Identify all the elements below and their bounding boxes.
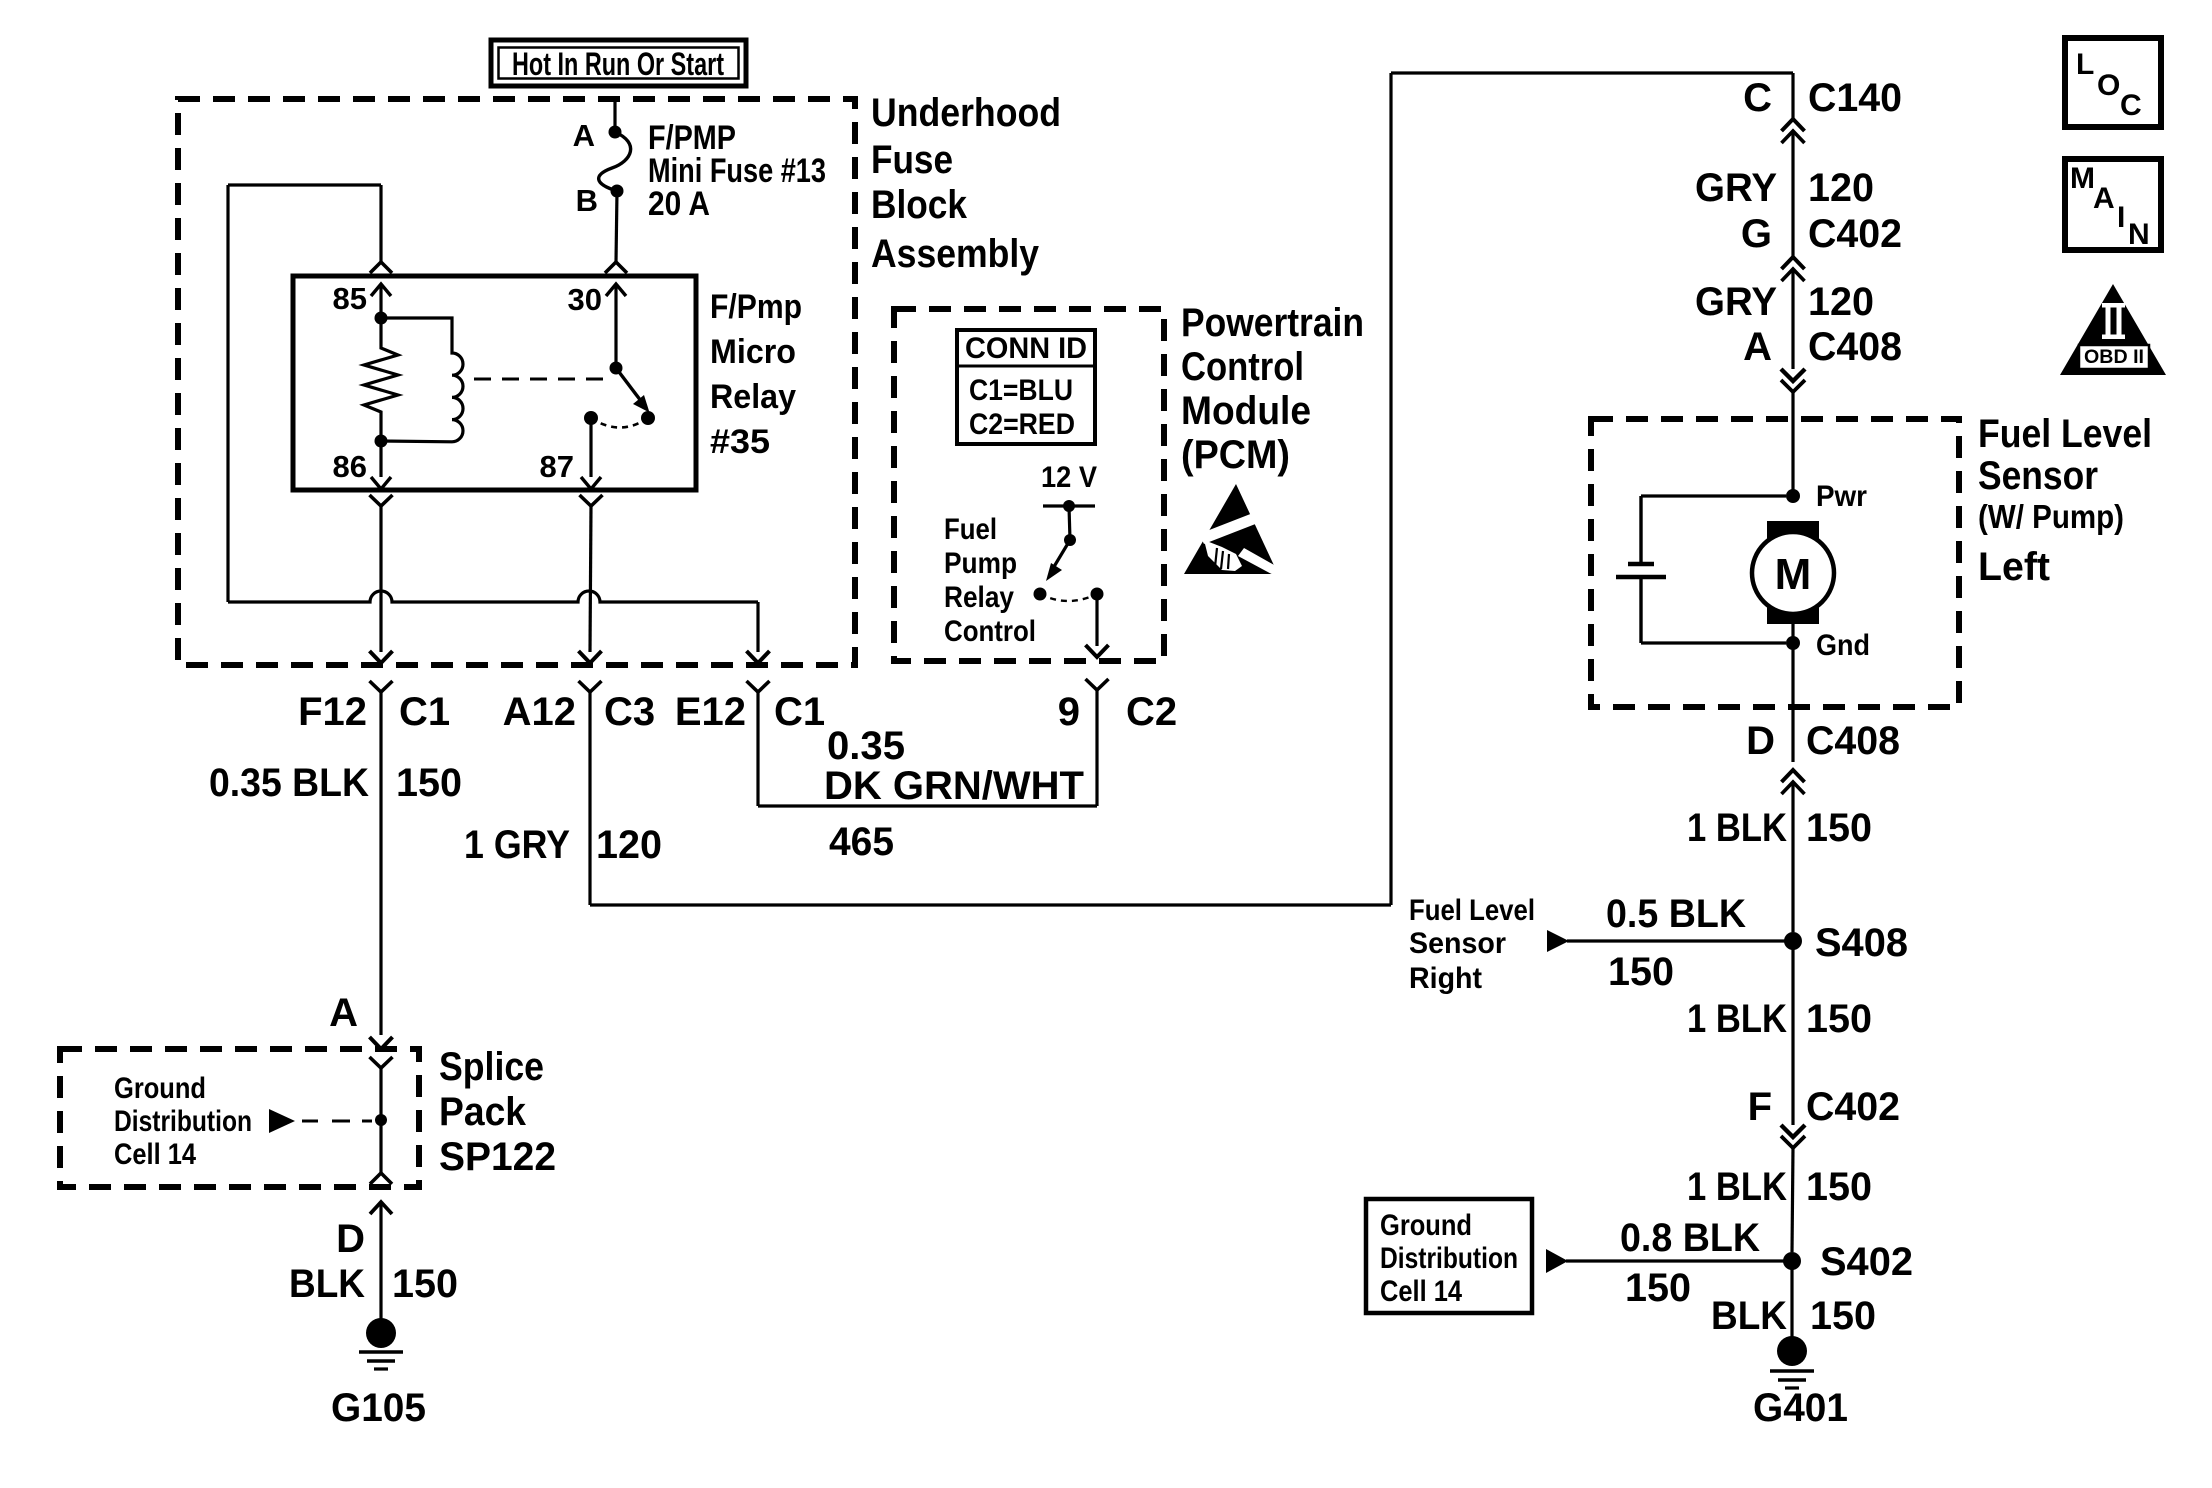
- svg-text:#35: #35: [710, 423, 770, 461]
- PCM switch pivot node: [1064, 534, 1076, 546]
- svg-text:L: L: [2076, 48, 2094, 81]
- svg-text:G105: G105: [331, 1386, 426, 1430]
- label 0.8 BLK 150: [1620, 1216, 1760, 1310]
- svg-text:A: A: [1743, 325, 1772, 369]
- svg-text:C2=RED: C2=RED: [969, 408, 1075, 441]
- svg-text:150: 150: [1806, 1165, 1872, 1209]
- PCM output wire to pin 9: [1095, 594, 1098, 646]
- svg-text:Fuel Level: Fuel Level: [1978, 412, 2152, 456]
- exit arrow pin 9 at PCM border: [1086, 645, 1109, 657]
- svg-text:(PCM): (PCM): [1181, 433, 1290, 477]
- connector A12/C3: [503, 681, 656, 734]
- fuel pump motor M: [1752, 521, 1834, 624]
- svg-text:Fuel Level: Fuel Level: [1409, 894, 1535, 927]
- connector 9/C2: [1058, 679, 1177, 734]
- svg-text:Control: Control: [1181, 345, 1304, 389]
- ground distribution cell 14 box: [1366, 1199, 1532, 1313]
- svg-text:F/Pmp: F/Pmp: [710, 288, 802, 326]
- label Fuel Pump Relay Control: [944, 513, 1036, 648]
- svg-text:BLK: BLK: [1711, 1294, 1787, 1338]
- svg-text:150: 150: [1625, 1266, 1691, 1310]
- PCM switch upper link: [1069, 506, 1070, 540]
- exit arrow below splice pack: [370, 1202, 392, 1338]
- svg-text:BLK: BLK: [289, 1262, 365, 1306]
- svg-text:Assembly: Assembly: [871, 232, 1040, 276]
- svg-text:Distribution: Distribution: [114, 1105, 252, 1138]
- label G105: [331, 1386, 426, 1430]
- svg-text:D: D: [1746, 719, 1775, 763]
- svg-text:Sensor: Sensor: [1409, 927, 1506, 960]
- wire pin 85 external loop to E12: [228, 185, 758, 652]
- fuse F/PMP Mini Fuse #13 20A element: [599, 132, 631, 191]
- ground distribution callout arrow: [1546, 1249, 1568, 1273]
- relay actuation dashed link: [474, 378, 610, 381]
- svg-text:(W/ Pump): (W/ Pump): [1978, 498, 2124, 535]
- wire A12 (GRY 120) to connector C140: [590, 73, 1793, 905]
- svg-text:Hot In Run Or Start: Hot In Run Or Start: [512, 46, 724, 82]
- relay pin 85 arrow: [371, 284, 391, 318]
- relay F/Pmp Micro Relay #35 box: [293, 276, 696, 490]
- svg-text:Gnd: Gnd: [1816, 629, 1870, 662]
- label A: [329, 991, 358, 1035]
- wire Gnd out of sensor box: [1791, 643, 1794, 762]
- connector F12/C1: [298, 681, 450, 734]
- svg-text:M: M: [1775, 550, 1812, 599]
- connector F/C402: [1748, 1085, 1900, 1148]
- wire C408 to S408: [1791, 782, 1794, 932]
- label 30: [568, 282, 602, 317]
- svg-text:Block: Block: [871, 183, 968, 227]
- svg-text:I: I: [2117, 201, 2125, 234]
- relay pin 87 arrow: [581, 418, 601, 489]
- relay switch pivot node: [610, 362, 623, 375]
- label Splice Pack SP122: [439, 1045, 556, 1179]
- svg-text:Cell 14: Cell 14: [1380, 1275, 1462, 1308]
- svg-text:C1=BLU: C1=BLU: [969, 374, 1073, 407]
- svg-text:GRY: GRY: [1695, 280, 1777, 324]
- node Gnd: [1786, 629, 1870, 662]
- svg-text:Pump: Pump: [944, 547, 1017, 580]
- connector C/C140: [1743, 76, 1902, 143]
- connector A/C408: [1743, 325, 1902, 392]
- connector below relay pin 86: [370, 495, 393, 652]
- svg-text:C402: C402: [1808, 212, 1902, 256]
- svg-text:85: 85: [333, 281, 367, 316]
- splice pack SP122 dashed box: [60, 1049, 419, 1187]
- svg-text:150: 150: [396, 761, 462, 805]
- relay coil top node: [375, 312, 388, 325]
- svg-text:120: 120: [596, 823, 662, 867]
- svg-text:Fuel: Fuel: [944, 513, 997, 546]
- fuel level sensor dashed box: [1591, 419, 1959, 707]
- label 1 BLK 150 (lower): [1687, 1165, 1872, 1209]
- wire S408 to C402: [1791, 941, 1794, 1125]
- OBD II triangle symbol: [2060, 284, 2166, 375]
- svg-text:DK GRN/WHT: DK GRN/WHT: [824, 764, 1084, 808]
- relay switch dashed throw arc: [591, 418, 648, 428]
- svg-text:9: 9: [1058, 690, 1080, 734]
- svg-text:C1: C1: [399, 690, 450, 734]
- connector below relay pin 87: [580, 495, 603, 652]
- underhood fuse block assembly dashed box: [178, 99, 855, 665]
- connector G/C402: [1741, 212, 1902, 281]
- label GRY 120 (upper): [1695, 166, 1874, 210]
- svg-text:20 A: 20 A: [648, 185, 710, 223]
- svg-text:Ground: Ground: [114, 1072, 206, 1105]
- svg-text:0.35 BLK: 0.35 BLK: [209, 761, 369, 805]
- svg-text:150: 150: [1608, 950, 1674, 994]
- svg-text:O: O: [2097, 69, 2120, 102]
- svg-text:Pack: Pack: [439, 1090, 527, 1134]
- fuel level sensor right callout arrow: [1547, 930, 1569, 952]
- svg-text:A12: A12: [503, 690, 576, 734]
- svg-text:Splice: Splice: [439, 1045, 544, 1089]
- ground G105 symbol: [359, 1318, 403, 1369]
- ESD sensitive device symbol: [1184, 484, 1283, 578]
- svg-text:0.35: 0.35: [827, 724, 905, 768]
- relay switch moving contact: [641, 411, 655, 425]
- svg-text:Left: Left: [1978, 545, 2050, 589]
- relay coil winding: [381, 318, 463, 442]
- svg-text:C: C: [1743, 76, 1772, 120]
- node Pwr: [1786, 480, 1867, 513]
- svg-text:C: C: [2120, 89, 2142, 122]
- svg-text:Relay: Relay: [710, 378, 796, 416]
- svg-text:M: M: [2070, 162, 2095, 195]
- label GRY 120 (lower): [1695, 280, 1874, 324]
- relay fixed contact 87: [584, 411, 598, 425]
- label 1 BLK 150 (upper): [1687, 806, 1872, 850]
- connector D/C408: [1746, 719, 1900, 794]
- label 86: [333, 449, 367, 484]
- svg-text:S408: S408: [1815, 921, 1908, 965]
- wire C402 to S402: [1792, 1148, 1793, 1252]
- label 1 BLK 150 (middle): [1687, 997, 1872, 1041]
- svg-text:F: F: [1748, 1085, 1772, 1129]
- ground G401 symbol: [1770, 1336, 1814, 1388]
- splice connector chevron top: [370, 1057, 393, 1173]
- label Powertrain Control Module (PCM): [1181, 301, 1364, 477]
- label A: [573, 118, 595, 153]
- label F/PMP Mini Fuse #13 20 A: [648, 119, 826, 223]
- svg-text:C1: C1: [774, 690, 825, 734]
- node A: [609, 126, 622, 139]
- svg-text:30: 30: [568, 282, 602, 317]
- splice node SP122: [375, 1114, 387, 1126]
- svg-text:B: B: [576, 183, 598, 218]
- wire 0.8 BLK 150 into S402: [1566, 1259, 1784, 1262]
- ground distribution callout arrow (splice): [269, 1109, 372, 1133]
- svg-text:Relay: Relay: [944, 581, 1014, 614]
- label 1 GRY 120: [464, 823, 662, 867]
- entry arrow at splice pack border: [370, 1037, 393, 1049]
- svg-text:150: 150: [1806, 806, 1872, 850]
- svg-text:Fuse: Fuse: [871, 138, 953, 182]
- PCM switch dashed throw arc: [1040, 594, 1097, 601]
- svg-text:Underhood: Underhood: [871, 91, 1061, 135]
- svg-text:G: G: [1741, 212, 1772, 256]
- wire F12 to splice pack SP122: [379, 692, 382, 1035]
- svg-text:C408: C408: [1808, 325, 1902, 369]
- svg-text:N: N: [2128, 218, 2150, 251]
- wire C402 to C408: [1791, 269, 1794, 369]
- svg-text:120: 120: [1808, 280, 1874, 324]
- svg-text:1 BLK: 1 BLK: [1687, 1165, 1787, 1209]
- relay coil bottom node: [375, 435, 388, 448]
- MAIN legend box: [2065, 159, 2161, 251]
- wire into fuel level sensor: [1791, 392, 1794, 496]
- wire 0.5 BLK 150 into S408: [1567, 939, 1786, 942]
- relay pin 30 arrow: [606, 284, 626, 368]
- label D BLK 150: [289, 1217, 458, 1306]
- svg-text:Micro: Micro: [710, 333, 796, 371]
- svg-text:0.8 BLK: 0.8 BLK: [1620, 1216, 1760, 1260]
- PCM dashed box: [894, 309, 1164, 661]
- svg-text:D: D: [336, 1217, 365, 1261]
- node B: [611, 185, 624, 198]
- svg-text:Ground: Ground: [1380, 1209, 1472, 1242]
- svg-text:Pwr: Pwr: [1816, 480, 1867, 513]
- wire pump to Gnd node: [1791, 614, 1794, 643]
- svg-text:C3: C3: [604, 690, 655, 734]
- svg-text:150: 150: [1810, 1294, 1876, 1338]
- label 12 V: [1041, 461, 1097, 494]
- svg-text:E12: E12: [675, 690, 746, 734]
- svg-text:GRY: GRY: [1695, 166, 1777, 210]
- wire fuse B to relay pin 30 connector: [616, 191, 617, 262]
- label 0.35 BLK 150: [209, 761, 462, 805]
- wire E12 to PCM pin 9 (DK GRN/WHT 465): [758, 690, 1097, 806]
- relay pin 86 arrow: [371, 441, 391, 489]
- svg-text:150: 150: [392, 1262, 458, 1306]
- battery element (sender): [1616, 496, 1786, 643]
- svg-text:1 GRY: 1 GRY: [464, 823, 570, 867]
- svg-text:SP122: SP122: [439, 1135, 556, 1179]
- svg-text:87: 87: [540, 449, 574, 484]
- CONN ID table: [957, 330, 1095, 444]
- connector E12/C1: [675, 681, 825, 734]
- label 85: [333, 281, 367, 316]
- svg-text:A: A: [573, 118, 595, 153]
- svg-text:CONN ID: CONN ID: [965, 332, 1087, 365]
- svg-text:C140: C140: [1808, 76, 1902, 120]
- svg-text:F12: F12: [298, 690, 367, 734]
- exit arrow A12 at fuse block border: [579, 651, 602, 663]
- svg-text:A: A: [329, 991, 358, 1035]
- exit arrow F12 at fuse block border: [370, 651, 393, 663]
- exit arrow E12 at fuse block border: [747, 651, 770, 663]
- svg-text:Powertrain: Powertrain: [1181, 301, 1364, 345]
- label Fuel Level Sensor Right: [1409, 894, 1535, 995]
- PCM 12V node: [1063, 500, 1075, 512]
- label 0.5 BLK 150: [1606, 892, 1746, 994]
- svg-text:Control: Control: [944, 615, 1036, 648]
- svg-text:OBD II: OBD II: [2084, 347, 2144, 368]
- wire C140 to C402: [1791, 131, 1794, 257]
- LOC legend box: [2065, 38, 2161, 127]
- svg-text:150: 150: [1806, 997, 1872, 1041]
- svg-text:C408: C408: [1806, 719, 1900, 763]
- label Underhood Fuse Block Assembly: [871, 91, 1061, 276]
- PCM 12V supply bar: [1043, 504, 1095, 507]
- svg-text:G401: G401: [1753, 1386, 1848, 1430]
- connector chevron into relay (pin 30 feed): [605, 262, 627, 273]
- label BLK 150 (ground lead): [1711, 1294, 1876, 1338]
- svg-text:1 BLK: 1 BLK: [1687, 997, 1787, 1041]
- PCM output contact node: [1091, 588, 1104, 601]
- svg-text:Cell 14: Cell 14: [114, 1138, 196, 1171]
- relay resistor (coil suppression): [364, 318, 398, 441]
- svg-text:Distribution: Distribution: [1380, 1242, 1518, 1275]
- relay switch arm with arrowhead: [616, 368, 650, 413]
- svg-text:12 V: 12 V: [1041, 461, 1097, 494]
- label B: [576, 183, 598, 218]
- svg-text:C402: C402: [1806, 1085, 1900, 1129]
- label 87: [540, 449, 574, 484]
- svg-text:120: 120: [1808, 166, 1874, 210]
- svg-text:Module: Module: [1181, 389, 1311, 433]
- wire from hot feed into fuse block: [613, 97, 616, 128]
- splice S408: [1784, 921, 1908, 965]
- label 0.35 DK GRN/WHT 465: [824, 724, 1084, 864]
- splice S402: [1783, 1240, 1913, 1284]
- title box "Hot In Run Or Start": [491, 40, 746, 86]
- svg-text:C2: C2: [1126, 690, 1177, 734]
- label Ground Distribution Cell 14: [1380, 1209, 1518, 1308]
- label G401: [1753, 1386, 1848, 1430]
- label Ground Distribution Cell 14 (splice): [114, 1072, 252, 1171]
- PCM switch left contact: [1034, 588, 1047, 601]
- svg-text:A: A: [2093, 182, 2115, 215]
- label F/Pmp Micro Relay #35: [710, 288, 802, 461]
- svg-text:465: 465: [829, 820, 894, 864]
- label Fuel Level Sensor (W/ Pump) Left: [1978, 412, 2152, 589]
- connector chevron into relay (pin 85 feed): [370, 262, 392, 273]
- PCM switch arm with arrowhead: [1046, 540, 1070, 581]
- svg-text:1 BLK: 1 BLK: [1687, 806, 1787, 850]
- splice connector chevron bottom: [370, 1173, 392, 1184]
- wire S402 to ground G401: [1790, 1261, 1793, 1338]
- svg-text:Sensor: Sensor: [1978, 454, 2098, 498]
- svg-text:86: 86: [333, 449, 367, 484]
- svg-text:0.5 BLK: 0.5 BLK: [1606, 892, 1746, 936]
- svg-text:S402: S402: [1820, 1240, 1913, 1284]
- svg-text:Right: Right: [1409, 962, 1482, 995]
